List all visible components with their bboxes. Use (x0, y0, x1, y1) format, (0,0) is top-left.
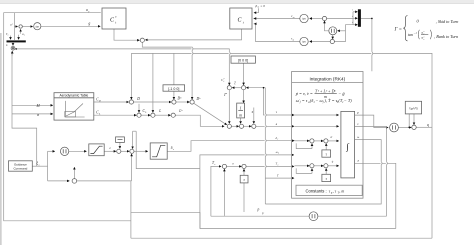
svg-text:tan: tan (408, 32, 413, 37)
svg-text:q: q (427, 123, 429, 127)
svg-text:[-1 0 0]: [-1 0 0] (168, 87, 179, 91)
svg-text:− ω: − ω (315, 98, 322, 103)
svg-text:Aerodynamic Table: Aerodynamic Table (60, 94, 89, 98)
svg-text:c: c (24, 35, 25, 37)
svg-text:½ρV²S: ½ρV²S (409, 107, 418, 111)
svg-text:= τ: = τ (302, 98, 308, 103)
svg-text:c: c (278, 164, 279, 166)
svg-text:Integration (RK4): Integration (RK4) (309, 76, 345, 81)
svg-text:L: L (158, 109, 161, 113)
svg-text:− T): − T) (344, 98, 353, 103)
svg-text:c: c (224, 78, 225, 80)
svg-text:ω: ω (357, 136, 359, 139)
svg-text:− ĝ: − ĝ (338, 91, 345, 96)
svg-text:Γ =: Γ = (394, 28, 402, 33)
svg-text:Γ′: Γ′ (223, 93, 227, 97)
svg-text:z: z (423, 39, 425, 41)
svg-text:Constants :: Constants : (306, 189, 327, 194)
svg-text:c: c (12, 24, 13, 26)
svg-text:g: g (89, 22, 91, 26)
svg-text:m: m (239, 112, 242, 117)
svg-text:= 0: = 0 (260, 4, 265, 8)
svg-text:D: D (136, 97, 140, 101)
svg-text:[0 0 0]: [0 0 0] (238, 59, 248, 63)
svg-text:p: p (257, 208, 260, 212)
svg-text:c: c (8, 34, 9, 36)
svg-text:1: 1 (240, 105, 242, 110)
svg-text:D: D (98, 99, 101, 102)
svg-text:Command: Command (13, 167, 27, 171)
svg-text:c: c (277, 139, 278, 141)
